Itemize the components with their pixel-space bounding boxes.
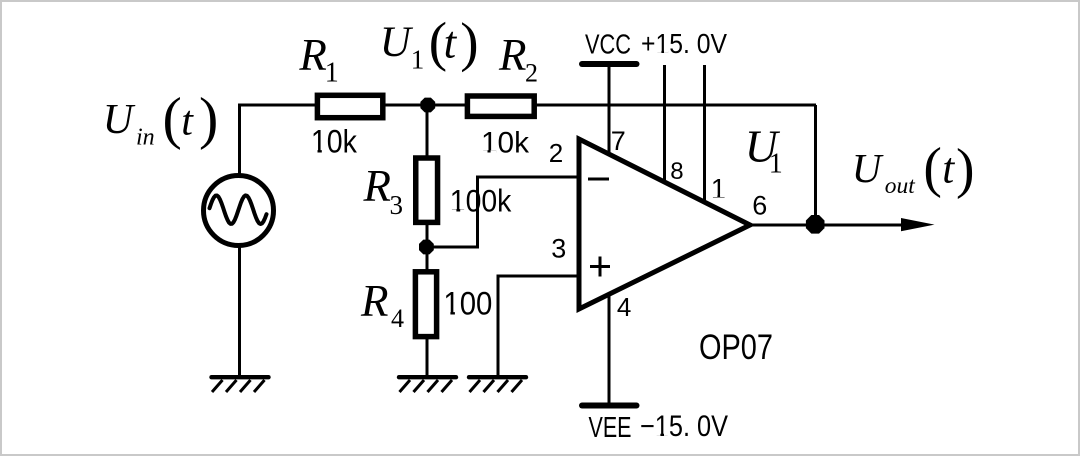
svg-text:−15. 0V: −15. 0V [640, 410, 728, 443]
svg-text:R: R [498, 30, 527, 80]
svg-text:VEE: VEE [589, 412, 632, 444]
svg-text:+15. 0V: +15. 0V [641, 28, 728, 59]
svg-text:R: R [363, 161, 392, 211]
svg-text:100k: 100k [450, 183, 512, 219]
svg-text:1: 1 [711, 173, 726, 203]
svg-text:): ) [199, 86, 218, 151]
svg-text:VCC: VCC [585, 29, 631, 60]
svg-text:3: 3 [390, 190, 404, 220]
svg-text:8: 8 [670, 158, 683, 185]
svg-text:1: 1 [769, 149, 783, 180]
svg-text:(: ( [923, 137, 942, 199]
svg-text:1: 1 [411, 45, 425, 75]
svg-text:3: 3 [551, 234, 566, 264]
svg-text:7: 7 [611, 126, 626, 156]
svg-text:10k: 10k [311, 124, 358, 160]
svg-text:10k: 10k [481, 127, 530, 160]
svg-text:U: U [103, 97, 136, 143]
svg-text:(: ( [163, 85, 182, 150]
svg-text:t: t [942, 146, 955, 193]
svg-text:U: U [852, 145, 884, 191]
svg-text:): ) [956, 138, 975, 200]
svg-text:1: 1 [325, 58, 339, 89]
svg-text:OP07: OP07 [699, 328, 773, 367]
svg-text:2: 2 [525, 58, 538, 87]
svg-text:out: out [885, 173, 916, 199]
svg-text:in: in [136, 125, 155, 151]
svg-text:100: 100 [443, 286, 492, 322]
svg-text:t: t [181, 98, 194, 144]
svg-text:t: t [444, 18, 458, 68]
svg-text:2: 2 [549, 138, 563, 168]
svg-text:): ) [460, 12, 478, 73]
svg-text:R: R [298, 30, 327, 80]
svg-text:6: 6 [752, 190, 767, 220]
svg-text:4: 4 [391, 304, 404, 333]
svg-text:R: R [360, 276, 389, 326]
svg-text:U: U [380, 19, 414, 66]
svg-text:4: 4 [617, 292, 631, 322]
